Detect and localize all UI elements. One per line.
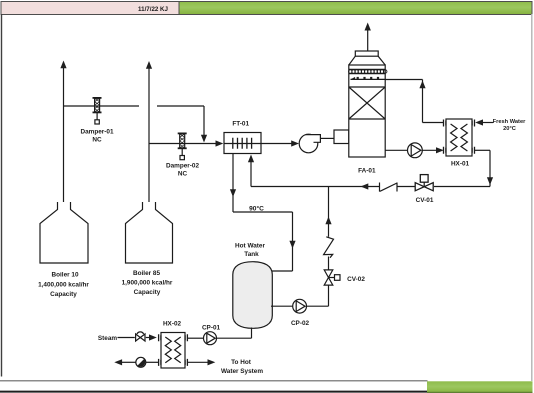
FA-01 stack wire — [365, 23, 371, 52]
left border — [1, 14, 3, 377]
svg-text:NC: NC — [178, 171, 188, 178]
wire CP-01 to HX-02 — [188, 337, 204, 339]
wire FT-01 to fan — [261, 140, 299, 146]
bottom gray rule — [0, 380, 428, 382]
FA-01 inlet box — [334, 130, 349, 144]
FT-01 economizer — [224, 133, 261, 154]
svg-text:Boiler 10: Boiler 10 — [52, 271, 79, 278]
FA-01 spray header — [351, 77, 386, 80]
svg-text:Water System: Water System — [221, 368, 263, 375]
steam wire — [118, 334, 157, 340]
wire tank bottom to CP-01 — [217, 328, 252, 339]
check valve V1 — [380, 183, 398, 192]
damper D2 label — [166, 163, 199, 178]
CP-01 label — [202, 325, 221, 332]
svg-text:FA-01: FA-01 — [358, 168, 376, 175]
wire duct from B10 — [64, 106, 208, 143]
bottom green block — [427, 381, 533, 393]
title band pink — [1, 2, 532, 15]
FT-01 drain wire to 90C — [230, 154, 296, 272]
svg-text:Capacity: Capacity — [134, 289, 161, 296]
tank label — [235, 243, 265, 259]
boiler B85 label — [122, 270, 173, 296]
CP-02 label — [291, 320, 310, 327]
svg-text:90°C: 90°C — [249, 205, 264, 213]
damper D2 — [178, 133, 187, 159]
to hot water system label — [221, 359, 263, 375]
HX-02 heat exchanger — [159, 333, 188, 369]
damper D1 — [93, 98, 102, 124]
svg-text:CP-01: CP-01 — [202, 325, 221, 332]
boiler B85 vessel — [126, 202, 173, 263]
wire CP-02 to CV-02 riser — [307, 285, 329, 307]
90C label — [249, 205, 264, 213]
svg-text:Damper-01: Damper-01 — [80, 129, 113, 136]
title band green — [179, 2, 532, 15]
svg-text:Fresh Water: Fresh Water — [493, 119, 526, 125]
svg-text:Capacity: Capacity — [50, 291, 77, 298]
HX-01 heat exchanger — [444, 119, 475, 156]
svg-text:Boiler 85: Boiler 85 — [133, 270, 160, 277]
hot water tank — [233, 262, 272, 329]
CV-01 label — [416, 197, 434, 204]
svg-text:HX-01: HX-01 — [451, 161, 470, 168]
svg-text:11/7/22 KJ: 11/7/22 KJ — [138, 6, 168, 13]
svg-text:Tank: Tank — [244, 251, 259, 258]
boiler B10 stack wire — [60, 61, 66, 203]
fresh water label — [493, 119, 526, 132]
FT-01 label — [232, 121, 249, 128]
boiler B10 vessel — [40, 202, 88, 263]
steam trap — [136, 357, 146, 367]
svg-text:CV-02: CV-02 — [347, 276, 365, 283]
svg-text:Damper-02: Damper-02 — [166, 163, 199, 170]
svg-text:1,900,000 kcal/hr: 1,900,000 kcal/hr — [122, 280, 173, 287]
wire HX-02 to hot water system — [188, 359, 215, 365]
steam label — [98, 335, 117, 342]
FA-01 tower body — [349, 51, 385, 157]
svg-text:1,400,000 kcal/hr: 1,400,000 kcal/hr — [38, 281, 89, 288]
steam valve — [136, 332, 145, 341]
wire duct from B85 — [149, 140, 223, 146]
fresh water inlet wire — [475, 119, 493, 125]
wire HX-01 outlet down to return — [475, 150, 494, 186]
wire FA-01 outlet to pump P1 — [385, 149, 407, 151]
right border — [531, 14, 533, 381]
svg-text:To Hot: To Hot — [231, 359, 252, 366]
svg-text:CV-01: CV-01 — [416, 197, 434, 204]
return wire to FT-01 — [248, 155, 490, 190]
bottom black rule — [0, 391, 428, 393]
FA-01 label — [358, 168, 376, 175]
wire pump P1 to HX-01 — [422, 147, 444, 153]
boiler B85 stack wire — [146, 61, 152, 202]
title text 11/7/22 KJ — [138, 6, 168, 13]
CV-02 label — [347, 276, 365, 283]
svg-text:HX-02: HX-02 — [163, 321, 182, 328]
control valve CV-02 — [324, 270, 340, 285]
pump CP-01 — [204, 332, 217, 345]
svg-text:CP-02: CP-02 — [291, 320, 310, 327]
FA-01 packing X section — [349, 87, 385, 119]
pump P1 — [408, 143, 423, 158]
wire spray header to HX-01 — [385, 80, 443, 123]
FA-01 demister circles — [349, 69, 387, 73]
control valve CV-01 — [415, 175, 433, 191]
HX-01 label — [451, 161, 470, 168]
riser break symbol — [324, 237, 334, 258]
svg-text:20°C: 20°C — [503, 126, 516, 132]
svg-text:FT-01: FT-01 — [232, 121, 249, 128]
pump CP-02 — [293, 299, 307, 313]
HX-02 label — [163, 321, 182, 328]
riser wire to return — [325, 187, 331, 270]
fan blower — [299, 134, 320, 153]
damper D1 label — [80, 129, 113, 144]
svg-text:NC: NC — [92, 137, 102, 144]
wire tank to CP-02 — [271, 305, 293, 307]
svg-text:Steam: Steam — [98, 335, 117, 342]
wire fan to FA-01 inlet — [320, 137, 334, 139]
svg-text:Hot Water: Hot Water — [235, 243, 265, 250]
boiler B10 label — [38, 271, 89, 298]
steam trap wire — [114, 359, 158, 365]
